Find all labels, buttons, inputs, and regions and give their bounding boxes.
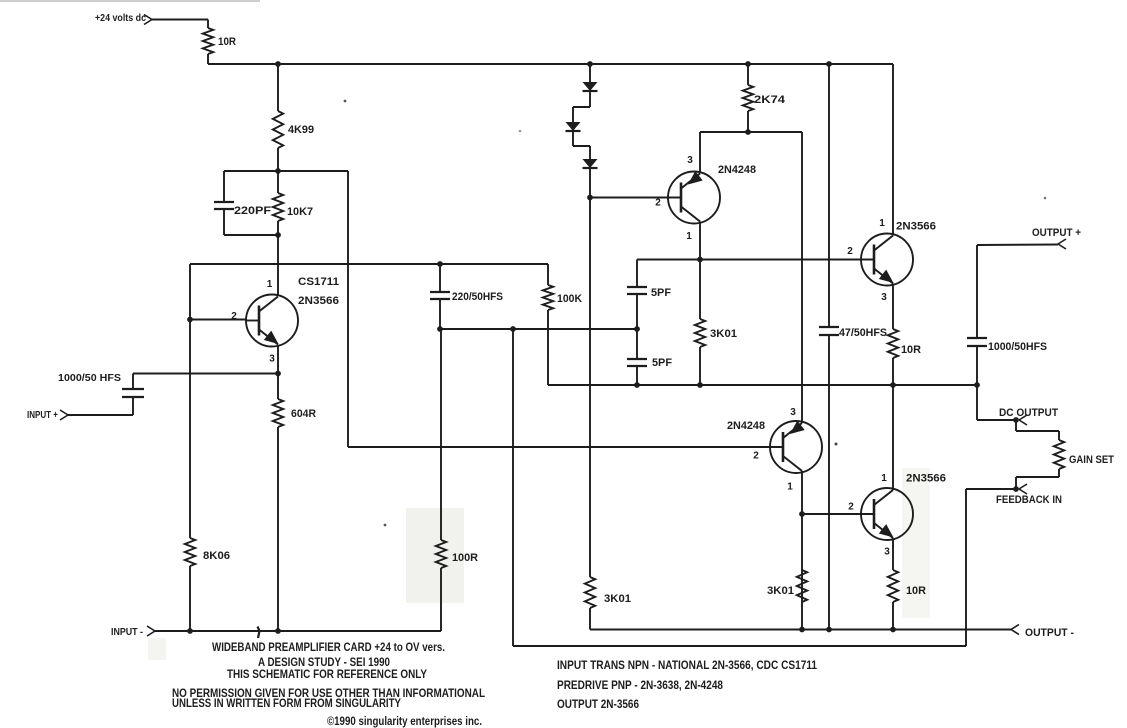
note scan speck 5 [519,130,522,133]
wire gain set bottom lead [1058,469,1060,477]
node bus / 47uF bypass junction [826,61,832,67]
svg-text:+24 volts dc: +24 volts dc [95,13,146,24]
svg-text:3: 3 [881,292,887,303]
wire input cap top lead [132,374,134,390]
wire bias node horizontal [224,170,348,172]
capacitor 1000/50HFS (output coupling) [967,338,1047,353]
svg-text:OUTPUT 2N-3566: OUTPUT 2N-3566 [557,697,639,711]
wire bypass leg upper [828,64,830,327]
wire Q4 collector lead [801,471,803,630]
resistor 3K01 (diode bias leg) [585,577,631,608]
node Q2 collector junction [697,257,703,263]
node 2K74 / emitter rail junction [745,129,751,135]
svg-text:10K7: 10K7 [287,206,313,218]
capacitor 220/50HFS [430,291,503,303]
node 3K01 bottom junction [697,382,703,388]
wire bias node down leg [347,171,349,447]
note parts list line 2 [557,678,723,692]
svg-text:1: 1 [686,231,692,242]
svg-text:100R: 100R [452,552,478,564]
note parts list line 3 [557,697,639,711]
node Q1 emitter junction [275,371,281,377]
wire 10R bottom lead [207,54,209,64]
svg-text:3: 3 [790,407,796,418]
wire 5PF-B bottom lead [636,366,638,385]
svg-text:2N3566: 2N3566 [906,473,946,485]
svg-text:1000/50 HFS: 1000/50 HFS [58,373,121,384]
svg-text:THIS SCHEMATIC FOR REFERENCE O: THIS SCHEMATIC FOR REFERENCE ONLY [227,667,427,681]
svg-text:220/50HFS: 220/50HFS [452,291,503,303]
wire INPUT+ to coupling cap [68,414,133,416]
svg-text:INPUT -: INPUT - [111,627,143,638]
svg-text:604R: 604R [291,408,316,420]
node Q2 base junction [587,195,593,201]
wire Q5 emitter lead [892,538,894,570]
resistor 10K7 [273,193,313,221]
wire input cap to Q1 emitter [133,373,278,375]
wire 5PF-A bottom lead [636,294,638,329]
wire 3K01-A top lead [699,260,701,320]
node feedback tap junction [510,326,516,332]
node 220/50HFS bottom junction [437,326,443,332]
wire 10K7 bottom lead [277,221,279,235]
svg-text:8K06: 8K06 [203,550,230,562]
svg-text:GAIN SET: GAIN SET [1069,454,1114,466]
wire Q3 emitter lead [892,284,894,330]
wire 10R top lead [207,20,209,29]
node bus / diode chain junction [587,61,593,67]
node OUTPUT - connector [1011,625,1074,640]
svg-text:3: 3 [884,547,890,558]
transistor Q3 2N3566 (output NPN upper) [847,218,936,303]
svg-text:1000/50HFS: 1000/50HFS [988,341,1047,353]
svg-text:OUTPUT -: OUTPUT - [1025,627,1074,639]
resistor 604R [273,399,316,427]
capacitor 5PF (upper) [627,287,671,299]
svg-text:3: 3 [269,354,275,365]
wire 220PF top lead [223,171,225,202]
node DC output tap junction [974,382,980,388]
wire 604R top lead [277,374,279,400]
wire +24V supply bus [208,63,893,65]
svg-text:3: 3 [687,155,693,166]
node 5PF bottom junction [634,382,640,388]
wire jog right [573,145,590,147]
wire 4K99 bottom lead [277,148,279,171]
note permission line 2 [172,696,401,710]
wire 5PF-B top lead [636,329,638,359]
note permission line 1 [172,686,485,700]
node DC OUTPUT connector [999,407,1058,425]
wire gain set upper jog right [1016,430,1059,432]
wire emitter rail down leg [801,132,803,423]
node output emitter junction [890,382,896,388]
note scan speck 3 [1044,197,1047,200]
resistor 4K99 [273,111,314,148]
svg-text:CS1711: CS1711 [298,276,339,288]
node FEEDBACK IN connector [996,484,1062,506]
wire Q5 10R bottom lead [892,602,894,630]
note copyright [327,714,482,728]
node OUTPUT + connector [1032,227,1081,249]
node Q5 10R / output rail junction [890,627,896,633]
wire 100R bottom lead [440,568,442,631]
node bus / 4K99 junction [275,61,281,67]
wire Q3 10R bottom lead [892,358,894,385]
resistor 10R (supply dropper) [203,28,236,54]
wire DC output horizontal [977,419,1016,421]
wire gain set lower jog down [1015,477,1017,489]
svg-text:2N4248: 2N4248 [718,164,756,176]
resistor 100R [436,540,478,568]
wire Q3 base rail [637,259,874,261]
wire D2 to jog [572,131,574,146]
wire 4K99 top lead [277,64,279,111]
svg-text:1: 1 [881,473,887,484]
wire gain set top lead [1058,431,1060,440]
note parts list line 1 [557,658,817,672]
node 8K06 / input rail junction [187,628,193,634]
wire feedback node horizontal [440,328,637,330]
svg-text:10R: 10R [901,344,921,356]
svg-text:PREDRIVE PNP - 2N-3638, 2N-424: PREDRIVE PNP - 2N-3638, 2N-4248 [557,678,723,692]
wire Q2 emitter rail [700,131,802,133]
node 4K99 / 10K7 junction [275,168,281,174]
svg-text:5PF: 5PF [652,357,672,369]
resistor 2K74 [743,85,786,111]
node INPUT + connector [27,410,68,421]
wire input cap bottom lead [132,397,134,415]
resistor 3K01 (Q4 load) [767,570,807,602]
wire 10K7 top lead [277,171,279,193]
node 220/50HFS top junction [437,261,443,267]
note reference-only line [227,667,427,681]
wire diode chain top lead [589,64,591,82]
wire 220PF bottom to node [224,234,278,236]
note scan speck 4 [384,524,387,527]
svg-text:100K: 100K [557,293,582,305]
svg-text:2K74: 2K74 [754,94,786,106]
node Q4 3K01 / output rail junction [799,627,805,633]
svg-text:220PF: 220PF [234,205,271,217]
wire 2K74 top lead [747,64,749,85]
svg-text:2N4248: 2N4248 [727,420,765,432]
transistor Q2 2N4248 (predrive PNP upper) [655,155,756,242]
wire 220/50HFS top lead [439,264,441,292]
capacitor 5PF (lower) [627,357,672,369]
wire jog left [573,106,590,108]
wire Q1 base lead [190,319,246,321]
resistor 3K01 (Q2 load) [695,319,737,347]
note scan tick mark on INPUT- rail [258,627,260,639]
node Q4 collector / Q5 base junction [799,511,805,517]
svg-text:2N3566: 2N3566 [896,221,936,233]
node 604R / input rail junction [275,628,281,634]
svg-text:INPUT +: INPUT + [27,410,58,421]
note scan speck 2 [835,443,838,446]
note design study line [258,655,390,669]
wire 100K bottom lead [547,310,549,385]
svg-text:2: 2 [655,198,661,209]
wire feedback return bottom [513,645,966,647]
wire feedback horizontal stub [966,488,1016,490]
wire D3 to Q2 base node [589,168,591,198]
wire Q2 collector lead [699,222,701,260]
wire 8K06 bottom lead [189,566,191,631]
wire 100K top lead [547,264,549,285]
capacitor 47/50HFS (bypass) [819,327,887,339]
wire Q1 emitter lead [277,346,279,374]
wire bypass leg lower [828,335,830,630]
svg-text:10R: 10R [906,585,926,597]
transistor Q1 CS1711 2N3566 (input NPN) [231,276,339,365]
svg-text:FEEDBACK IN: FEEDBACK IN [996,494,1062,506]
node 5PF midpoint junction [634,326,640,332]
wire Q3 collector lead [892,64,894,236]
resistor 8K06 [185,538,230,566]
note schematic title [212,640,445,654]
wire jog down to D2 [572,107,574,122]
wire output cap lower lead [976,346,978,420]
wire Q2 emitter lead [699,132,701,174]
diode D3 [583,159,598,168]
wire 220PF bottom lead [223,209,225,235]
svg-text:DC OUTPUT: DC OUTPUT [999,407,1058,419]
diode D1 [583,82,598,91]
transistor Q5 2N3566 (output NPN lower) [848,473,946,558]
node bus / 2K74 junction [745,61,751,67]
node Q1 base / divider junction [187,317,193,323]
svg-text:10R: 10R [218,36,236,48]
svg-text:2N3566: 2N3566 [298,295,339,307]
wire 5PF-A top lead [636,260,638,288]
wire feedback return riser [512,329,514,646]
resistor GAIN SET [1054,440,1114,469]
svg-text:1: 1 [267,279,273,290]
wire divider top horizontal [190,263,548,265]
resistor 10R (Q3 emitter) [888,329,921,358]
wire OUTPUT- rail [590,629,1011,631]
wire OUTPUT+ horizontal [977,244,1058,247]
wire feedback right leg down [965,489,967,646]
wire 3K01-A bottom lead [699,347,701,385]
wire 220/50HFS bottom lead [439,299,441,329]
svg-text:2: 2 [753,451,759,462]
wire Q1 collector lead [277,235,279,296]
capacitor 1000/50 HFS (input coupling) [58,373,144,397]
wire divider left leg [189,264,191,538]
wire Q2 base lead [590,197,681,199]
node bypass / output rail junction [826,627,832,633]
svg-text:5PF: 5PF [651,287,671,299]
svg-text:INPUT TRANS NPN - NATIONAL 2N-: INPUT TRANS NPN - NATIONAL 2N-3566, CDC … [557,658,817,672]
svg-text:3K01: 3K01 [767,585,794,597]
svg-text:WIDEBAND PREAMPLIFIER CARD +24: WIDEBAND PREAMPLIFIER CARD +24 to OV ver… [212,640,445,654]
svg-text:1: 1 [787,482,793,493]
wire diode line down leg [589,198,591,578]
svg-text:3K01: 3K01 [710,328,737,340]
wire INPUT- rail [155,630,441,632]
wire 2K74 bottom lead [747,111,749,132]
wire 604R bottom lead [277,427,279,631]
wire gain set lower jog left [1016,476,1059,478]
wire 100R top lead [440,329,442,540]
wire Q4 base rail [348,446,783,448]
svg-text:2: 2 [847,246,853,257]
svg-text:3K01: 3K01 [604,593,631,605]
node +24 volts dc input connector [95,13,152,25]
wire stage-2 node horizontal [548,384,977,386]
svg-text:UNLESS IN WRITTEN FORM FROM SI: UNLESS IN WRITTEN FORM FROM SINGULARITY [172,696,401,710]
wire +24V feed to R 10R [152,19,208,21]
wire jog down to D3 [589,146,591,159]
resistor 100K [543,285,582,310]
resistor 10R (Q5 emitter) [888,570,926,602]
svg-text:©1990 singularity enterprises: ©1990 singularity enterprises inc. [327,714,482,728]
svg-text:4K99: 4K99 [288,124,314,136]
svg-text:47/50HFS: 47/50HFS [839,327,887,339]
wire bias 3K01 bottom lead [589,608,591,630]
diode D2 [566,122,581,131]
node 10K7 / Q1 collector junction [275,232,281,238]
svg-text:2: 2 [848,502,854,513]
wire gain set upper jog down [1015,420,1017,431]
wire Q5 collector lead [892,385,894,490]
wire D1 to jog [589,91,591,107]
capacitor 220PF [214,202,271,217]
wire OUTPUT+ riser [976,245,978,338]
note scan speck 1 [344,100,347,103]
transistor Q4 2N4248 (predrive PNP lower) [727,407,822,493]
svg-text:1: 1 [879,218,885,229]
node INPUT - connector [111,626,155,638]
svg-text:OUTPUT +: OUTPUT + [1032,227,1081,239]
wire Q5 base lead [802,513,874,515]
